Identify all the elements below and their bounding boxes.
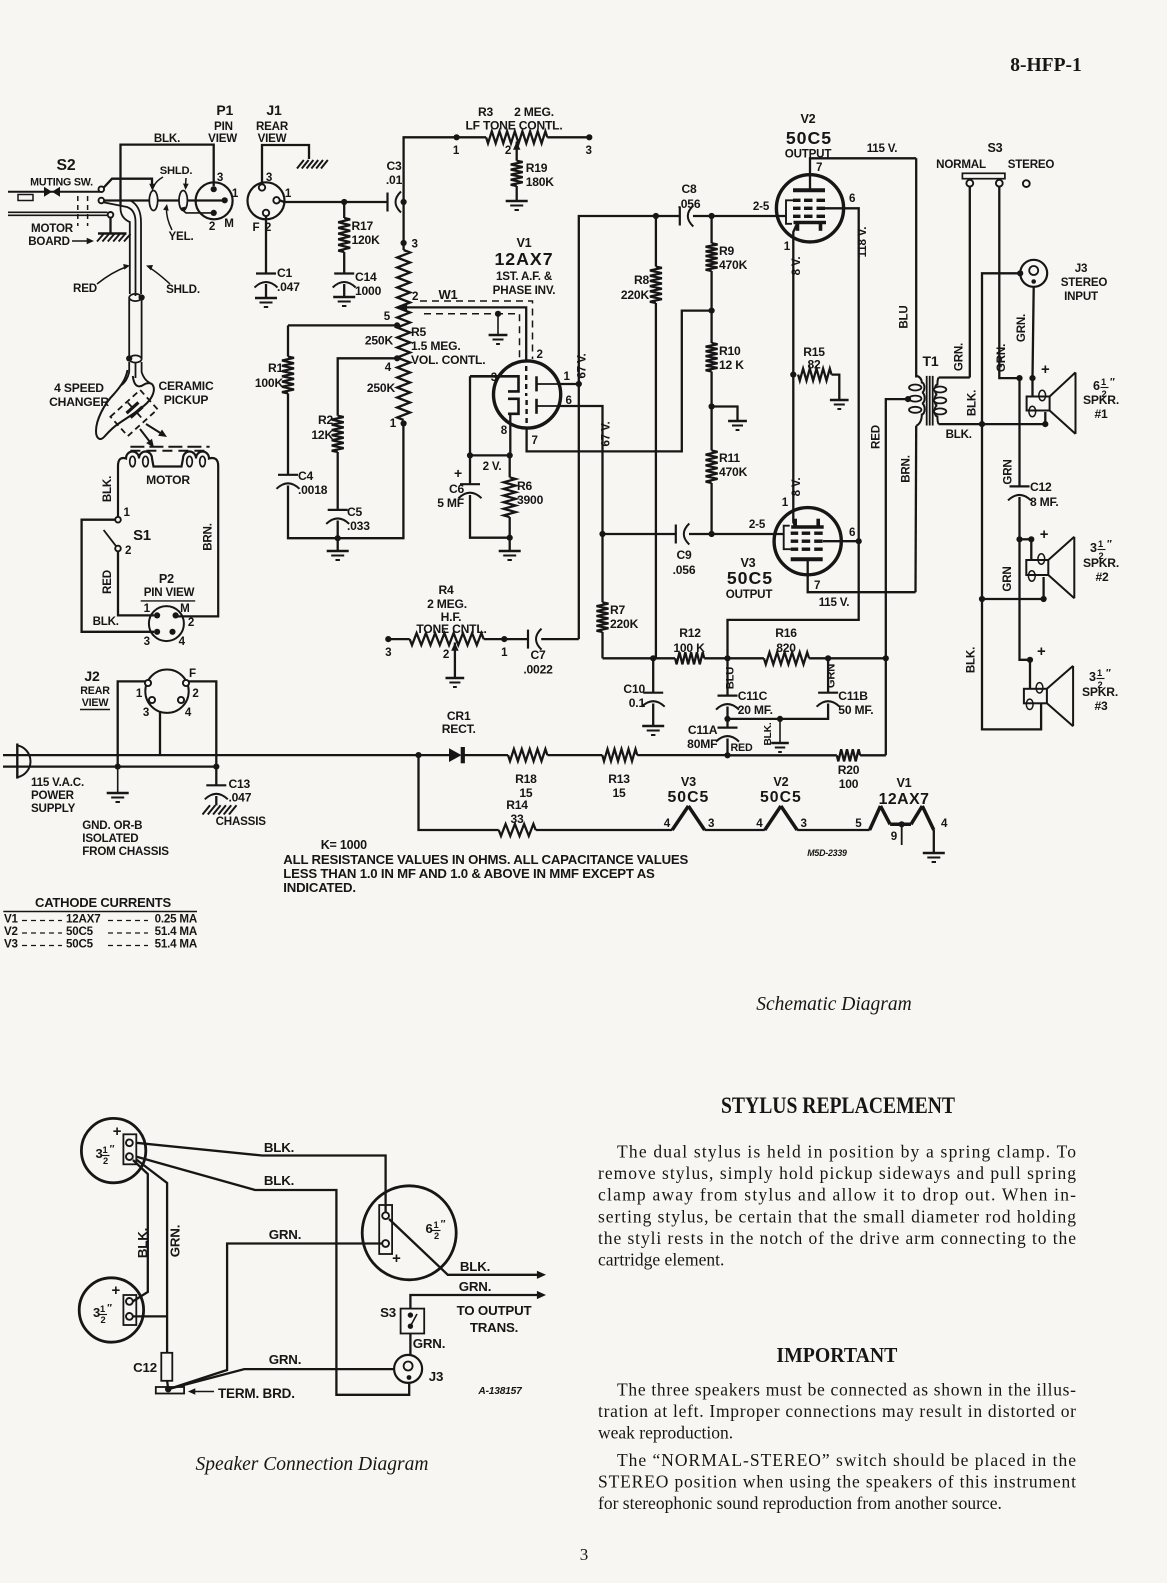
svg-text:1: 1 [453, 144, 460, 157]
svg-text:1: 1 [390, 417, 397, 430]
wire heater line from CR1 node [419, 755, 499, 830]
wire GRN line to speaker 2 minus [979, 566, 1044, 602]
svg-text:C11A: C11A [688, 723, 718, 737]
svg-text:8: 8 [501, 424, 508, 437]
node speaker 2 plus [1020, 527, 1049, 560]
wire T1 secondary bottom BLK [939, 421, 986, 441]
svg-text:″: ″ [1107, 539, 1112, 550]
svg-text:8 V.: 8 V. [790, 478, 803, 497]
svg-text:2-5: 2-5 [753, 200, 770, 213]
svg-text:1: 1 [564, 370, 571, 383]
resistor R8 [621, 216, 662, 658]
wire R5 tap 4 to R2 [338, 358, 397, 415]
svg-text:ALL RESISTANCE VALUES IN O: ALL RESISTANCE VALUES IN OHMS. ALL CAPAC… [283, 852, 688, 867]
svg-text:GRN.: GRN. [269, 1227, 301, 1242]
wire R5 tap 5 to R1 [288, 324, 397, 326]
svg-text:SPKR.: SPKR. [1082, 685, 1118, 699]
svg-text:C8: C8 [681, 182, 697, 196]
svg-text:VIEW: VIEW [258, 132, 287, 145]
svg-text:YEL.: YEL. [169, 230, 194, 243]
wire J2 bottom to AC line [159, 713, 161, 756]
svg-text:RED: RED [870, 425, 883, 449]
svg-text:3: 3 [217, 171, 224, 184]
svg-text:W1: W1 [438, 287, 457, 302]
label GRN under S3 [413, 1336, 445, 1351]
svg-text:118 V.: 118 V. [856, 227, 869, 258]
svg-text:2: 2 [101, 1315, 106, 1325]
svg-text:″: ″ [110, 1144, 115, 1155]
shield symbol at P1 [179, 191, 214, 213]
svg-text:T1: T1 [923, 353, 939, 369]
svg-text:0.1: 0.1 [629, 696, 646, 710]
svg-text:C14: C14 [355, 270, 377, 284]
ground below C1 [255, 298, 277, 307]
svg-text:NORMAL: NORMAL [936, 158, 986, 171]
jack J3 stereo input [1020, 260, 1107, 303]
svg-text:20 MF.: 20 MF. [738, 703, 773, 717]
svg-text:250K: 250K [367, 381, 396, 395]
wire BLK speaker A to speaker B [133, 1160, 150, 1301]
resistor R14 [499, 798, 673, 836]
tube V2 50C5 [776, 112, 856, 253]
svg-text:2: 2 [434, 1231, 439, 1241]
svg-text:2: 2 [103, 1156, 108, 1166]
speaker C 6.5 inch [362, 1186, 456, 1280]
motor board dashed line [130, 447, 209, 451]
ground below R15 [830, 400, 849, 409]
svg-text:R18: R18 [515, 772, 537, 786]
node 2V cathode [467, 452, 513, 473]
rectifier CR1 [415, 709, 508, 763]
svg-text:12 K: 12 K [719, 358, 744, 372]
caption speaker connection diagram [196, 1454, 429, 1475]
svg-text:C3: C3 [386, 159, 402, 173]
capacitor C12 [1008, 480, 1059, 542]
svg-text:MUTING SW.: MUTING SW. [30, 177, 93, 189]
svg-text:GRN.: GRN. [1015, 314, 1028, 342]
drawing number A-138157 [477, 1386, 523, 1397]
svg-text:GRN.: GRN. [952, 343, 965, 371]
wire GRN S3 normal to T1 secondary [952, 187, 969, 378]
svg-text:6: 6 [425, 1221, 432, 1236]
wire speaker 2 minus [1041, 577, 1047, 602]
svg-text:V1: V1 [4, 913, 19, 926]
svg-text:BLK.: BLK. [154, 132, 180, 145]
wire J2 right to C13 node [189, 681, 217, 766]
svg-text:BLK.: BLK. [460, 1259, 490, 1274]
capacitor C4 [277, 469, 338, 538]
svg-text:J3: J3 [1075, 262, 1088, 275]
svg-text:7: 7 [814, 579, 820, 592]
svg-text:3: 3 [585, 144, 592, 157]
wire V1 pin 8 down [509, 414, 511, 456]
svg-text:3: 3 [801, 817, 808, 830]
capacitor C8 [653, 182, 786, 227]
svg-text:+: + [1037, 644, 1046, 660]
svg-text:PHASE INV.: PHASE INV. [493, 284, 556, 297]
resistor R7 [597, 534, 639, 658]
svg-text:TRANS.: TRANS. [470, 1320, 518, 1335]
wire S2 contact 3 to motor board ground [109, 218, 111, 233]
potentiometer R4 HF tone control [385, 583, 528, 661]
svg-text:Schematic Diagram: Schematic Diagram [756, 994, 911, 1015]
tube V1 12AX7 [470, 236, 573, 447]
svg-text:R1: R1 [268, 361, 284, 375]
svg-text:2: 2 [505, 144, 511, 157]
svg-text:67 V.: 67 V. [600, 421, 613, 446]
wire BLK speaker A to J3 [136, 1157, 409, 1395]
label 4 speed changer [49, 381, 109, 409]
ground below R6 [499, 551, 521, 560]
svg-text:CATHODE CURRENTS: CATHODE CURRENTS [35, 895, 171, 910]
switch S2 muting switch [8, 157, 113, 226]
resistor R16 [764, 626, 889, 664]
svg-text:1: 1 [1098, 539, 1103, 549]
svg-text:+: + [111, 1283, 120, 1299]
svg-text:BLK.: BLK. [93, 615, 119, 628]
svg-text:120K: 120K [352, 233, 381, 247]
svg-text:RED: RED [731, 742, 753, 754]
svg-text:IMPORTANT: IMPORTANT [776, 1343, 898, 1367]
svg-text:51.4 MA: 51.4 MA [155, 938, 198, 951]
svg-text:.047: .047 [229, 791, 252, 805]
svg-text:GRN.: GRN. [459, 1279, 491, 1294]
svg-text:INPUT: INPUT [1064, 290, 1098, 303]
shield ground on W1 [489, 311, 508, 344]
capacitor C3 [386, 159, 403, 213]
svg-text:820: 820 [776, 641, 796, 655]
svg-text:SHLD.: SHLD. [166, 283, 200, 296]
wire GRN down to C12 [1001, 378, 1019, 486]
wire BLK speaker A to speaker C [136, 1140, 385, 1212]
svg-text:180K: 180K [526, 175, 555, 189]
svg-text:tration at left. Improper conn: tration at left. Improper connections ma… [598, 1401, 1076, 1421]
svg-text:50C5: 50C5 [668, 789, 710, 806]
svg-text:LESS THAN 1.0 IN MF AND: LESS THAN 1.0 IN MF AND 1.0 & ABOVE IN M… [283, 866, 655, 881]
svg-text:4: 4 [756, 817, 763, 830]
svg-text:115 V.A.C.: 115 V.A.C. [31, 776, 84, 789]
wire feedback V3 pin 6 to C11C node [728, 541, 859, 658]
wire RED S1 to P2 pin 1 [101, 551, 154, 615]
capacitor C14 [333, 270, 382, 298]
wire GRN S3 output [410, 1279, 546, 1309]
svg-text:″: ″ [441, 1219, 446, 1230]
svg-text:STEREO: STEREO [1008, 158, 1055, 171]
svg-text:GRN: GRN [1001, 459, 1014, 484]
svg-text:2: 2 [537, 348, 543, 361]
wire V3 pin 6 to feedback node [823, 538, 862, 544]
capacitor C12 connection diagram [133, 1353, 172, 1389]
svg-text:5 MF: 5 MF [437, 496, 464, 510]
svg-text:M: M [180, 602, 189, 615]
svg-text:R17: R17 [352, 219, 374, 233]
svg-text:S3: S3 [380, 1305, 396, 1320]
svg-text:1: 1 [1101, 377, 1106, 387]
svg-text:V2: V2 [4, 925, 18, 938]
svg-text:12AX7: 12AX7 [879, 791, 930, 808]
svg-text:BRN.: BRN. [899, 455, 912, 483]
svg-text:R5: R5 [411, 325, 427, 339]
svg-text:BLK.: BLK. [101, 476, 114, 502]
svg-text:50C5: 50C5 [786, 128, 832, 148]
svg-text:V1: V1 [516, 236, 531, 250]
svg-text:C9: C9 [676, 548, 692, 562]
svg-text:33: 33 [510, 812, 524, 826]
ground below C10 [642, 726, 664, 735]
svg-text:1000: 1000 [355, 284, 382, 298]
connector P1 [196, 102, 239, 233]
svg-text:3: 3 [93, 1305, 100, 1320]
svg-text:+: + [392, 1251, 401, 1267]
svg-text:″: ″ [1110, 377, 1115, 388]
svg-text:CHASSIS: CHASSIS [216, 815, 267, 828]
wire S3 to J3 [409, 1334, 411, 1356]
svg-text:8 MF.: 8 MF. [1030, 495, 1059, 509]
svg-text:BLK.: BLK. [965, 647, 978, 673]
ground below R19 [506, 201, 528, 210]
svg-text:3: 3 [144, 635, 151, 648]
svg-text:SPKR.: SPKR. [1083, 556, 1119, 570]
svg-text:C4: C4 [298, 469, 314, 483]
svg-text:GRN.: GRN. [269, 1352, 301, 1367]
svg-text:#3: #3 [1094, 699, 1108, 713]
svg-text:BLK.: BLK. [264, 1140, 294, 1155]
wire RED center tap to B+ [870, 399, 909, 755]
wire J1 pin 1 to R17 C3 [280, 199, 407, 205]
svg-text:#1: #1 [1094, 407, 1108, 421]
svg-text:the styli rests in the notch o: the styli rests in the notch of the driv… [598, 1228, 1076, 1248]
caption schematic diagram [756, 994, 911, 1015]
svg-text:POWER: POWER [31, 789, 75, 802]
resistor R19 [511, 142, 555, 202]
svg-text:1: 1 [434, 1220, 439, 1230]
wire W1 shielded lead to V1 grid [398, 287, 533, 362]
svg-text:F: F [253, 221, 260, 234]
svg-text:clamp away from stylus and all: clamp away from stylus and allow it to d… [598, 1185, 1076, 1205]
motor [118, 452, 218, 617]
label BRN motor [202, 523, 215, 551]
wire V2 pin 7 to 115V line [810, 142, 916, 190]
svg-text:4 SPEED: 4 SPEED [54, 381, 104, 395]
svg-text:GND. OR-B: GND. OR-B [82, 819, 142, 832]
label to output trans [457, 1303, 532, 1335]
svg-text:M5D-2339: M5D-2339 [807, 848, 847, 858]
svg-text:V1: V1 [896, 776, 911, 790]
capacitor C11B [728, 658, 874, 719]
svg-text:1: 1 [100, 1304, 105, 1314]
svg-text:1: 1 [103, 1145, 108, 1155]
label SHLD with arrows [154, 165, 192, 190]
paragraph important speakers [598, 1380, 1076, 1443]
svg-text:0.25 MA: 0.25 MA [155, 913, 198, 926]
svg-text:C10: C10 [623, 682, 645, 696]
svg-text:50C5: 50C5 [66, 925, 94, 938]
svg-text:BLK.: BLK. [946, 428, 972, 441]
heading important [776, 1343, 898, 1367]
resistor R18 [508, 749, 602, 800]
svg-text:12AX7: 12AX7 [66, 913, 100, 926]
svg-text:GRN: GRN [826, 664, 838, 688]
speaker SPKR2 3.5 inch [1026, 537, 1119, 599]
transformer T1 [905, 353, 946, 426]
svg-text:CERAMIC: CERAMIC [158, 379, 214, 393]
heading stylus replacement [721, 1093, 955, 1118]
svg-text:OUTPUT: OUTPUT [726, 588, 773, 601]
svg-text:S1: S1 [133, 528, 151, 544]
svg-text:C13: C13 [229, 777, 251, 791]
svg-text:80MF: 80MF [687, 737, 717, 751]
svg-text:470K: 470K [719, 465, 748, 479]
svg-text:1.5 MEG.: 1.5 MEG. [411, 339, 460, 353]
speaker SPKR3 3.5 inch [1024, 666, 1118, 726]
svg-text:C5: C5 [347, 505, 363, 519]
svg-text:RED: RED [101, 570, 114, 594]
svg-text:+: + [454, 465, 462, 481]
wire GRN J3 down to speaker 1 plus [1015, 287, 1034, 378]
wire GRN down to speaker 3 plus [1020, 539, 1047, 689]
jack J3 connection diagram [394, 1355, 443, 1384]
wire J2 left to AC line [118, 681, 146, 766]
shield symbol on yellow lead [149, 191, 157, 211]
svg-text:R3: R3 [478, 105, 494, 119]
svg-text:5: 5 [855, 817, 862, 830]
svg-text:J1: J1 [266, 102, 282, 118]
resistor R15 [790, 345, 839, 399]
svg-text:weak reproduction.: weak reproduction. [598, 1423, 733, 1443]
resistor R20 [728, 749, 886, 791]
svg-text:12AX7: 12AX7 [494, 249, 553, 269]
wire T1 secondary top to switch S3 [939, 376, 970, 378]
svg-text:P1: P1 [216, 102, 233, 118]
svg-text:3: 3 [708, 817, 715, 830]
svg-text:C12: C12 [133, 1360, 157, 1375]
page number 3 [580, 1545, 589, 1564]
svg-text:8-HFP-1: 8-HFP-1 [1010, 55, 1081, 76]
svg-text:7: 7 [532, 434, 538, 447]
svg-text:1ST. A.F. &: 1ST. A.F. & [496, 270, 553, 283]
svg-text:R6: R6 [517, 479, 533, 493]
svg-text:3: 3 [1089, 670, 1096, 684]
svg-text:J2: J2 [84, 668, 100, 684]
svg-text:R2: R2 [318, 413, 334, 427]
svg-text:SHLD.: SHLD. [160, 165, 193, 177]
resistor R11 [706, 407, 748, 535]
svg-text:GRN.: GRN. [168, 1225, 183, 1257]
svg-text:VOL. CONTL.: VOL. CONTL. [411, 353, 485, 367]
svg-text:R7: R7 [610, 603, 626, 617]
svg-text:1: 1 [124, 506, 131, 519]
wire BRN T1 primary bottom to V3 pin 7 [899, 426, 916, 592]
wire V3 pin 7 to 115V BRN [808, 559, 916, 609]
svg-text:15: 15 [612, 786, 626, 800]
wire speaker 1 minus to BLK line [982, 412, 1048, 427]
label BLK motor [101, 476, 114, 502]
isolated ground [82, 767, 169, 858]
svg-text:6: 6 [849, 192, 856, 205]
capacitor C1 [255, 266, 301, 298]
paragraph normal stereo switch [598, 1450, 1076, 1513]
svg-text:.056: .056 [673, 563, 696, 577]
svg-text:J3: J3 [429, 1369, 443, 1384]
wire GRN speaker B to C12 [133, 1160, 183, 1353]
svg-text:C11B: C11B [838, 689, 868, 703]
chassis ground at C13 [203, 805, 267, 828]
svg-text:2: 2 [209, 220, 215, 233]
svg-text:1: 1 [1097, 668, 1102, 678]
capacitor C11A [687, 719, 753, 755]
svg-text:MOTOR: MOTOR [146, 473, 190, 487]
AC power plug [3, 744, 84, 816]
svg-text:R11: R11 [719, 451, 740, 465]
svg-text:4: 4 [941, 817, 948, 830]
connector P2 [141, 572, 196, 648]
svg-text:C1: C1 [277, 266, 293, 280]
heater V3 [664, 775, 765, 830]
svg-text:1: 1 [285, 187, 292, 200]
svg-text:51.4 MA: 51.4 MA [155, 925, 198, 938]
wire V2 pin 1 cathode down [790, 223, 803, 375]
svg-text:C7: C7 [530, 648, 546, 662]
ground below C5 [327, 551, 349, 560]
svg-text:STEREO: STEREO [1061, 276, 1108, 289]
paragraph stylus replacement [598, 1142, 1076, 1270]
svg-text:220K: 220K [621, 288, 650, 302]
svg-text:.0022: .0022 [523, 663, 553, 677]
capacitor C7 [523, 629, 578, 677]
svg-text:.047: .047 [277, 280, 300, 294]
svg-text:67 V.: 67 V. [576, 353, 589, 378]
svg-text:2 MEG.: 2 MEG. [514, 105, 554, 119]
wire J3 to BLK line [966, 270, 1024, 424]
capacitor C11C [716, 658, 773, 722]
svg-text:250K: 250K [365, 334, 394, 348]
svg-text:FROM CHASSIS: FROM CHASSIS [82, 845, 169, 858]
ground below C14 [333, 297, 355, 306]
svg-text:cartridge element.: cartridge element. [598, 1250, 724, 1270]
svg-text:The “NORMAL-STEREO” switch sho: The “NORMAL-STEREO” switch should be pla… [617, 1450, 1076, 1470]
svg-text:2: 2 [192, 687, 198, 700]
svg-text:R9: R9 [719, 244, 735, 258]
svg-text:S3: S3 [987, 141, 1002, 155]
svg-text:+: + [1040, 527, 1049, 543]
svg-text:3: 3 [1090, 541, 1097, 555]
capacitor C6 [437, 455, 509, 537]
connector J1 [248, 102, 292, 234]
node 3 on volume control [401, 202, 419, 251]
svg-text:8 V.: 8 V. [790, 257, 803, 276]
potentiometer R3 LF tone control [453, 105, 593, 157]
svg-text:P2: P2 [159, 572, 174, 586]
svg-text:+: + [1041, 362, 1050, 378]
wire V1 pin 1 node to C8 line [561, 216, 681, 387]
svg-text:BOARD: BOARD [28, 235, 70, 248]
capacitor C13 [205, 767, 252, 806]
svg-text:+: + [113, 1124, 122, 1140]
svg-text:2 MEG.: 2 MEG. [427, 597, 467, 611]
svg-text:serting stylus, be certain tha: serting stylus, be certain that the smal… [598, 1206, 1076, 1226]
svg-text:115 V.: 115 V. [867, 142, 898, 155]
wire GRN S3 stereo contact down [995, 187, 1020, 379]
resistor R17 [338, 202, 380, 274]
svg-text:1: 1 [501, 646, 508, 659]
svg-text:C12: C12 [1030, 480, 1052, 494]
wire S2 top contact to shield [104, 179, 156, 191]
svg-text:CR1: CR1 [447, 709, 471, 723]
svg-text:for stereophonic sound reprodu: for stereophonic sound reproduction from… [598, 1493, 1002, 1513]
svg-text:C11C: C11C [738, 689, 768, 703]
svg-text:1: 1 [784, 240, 791, 253]
switch S3 connection diagram [380, 1305, 424, 1334]
